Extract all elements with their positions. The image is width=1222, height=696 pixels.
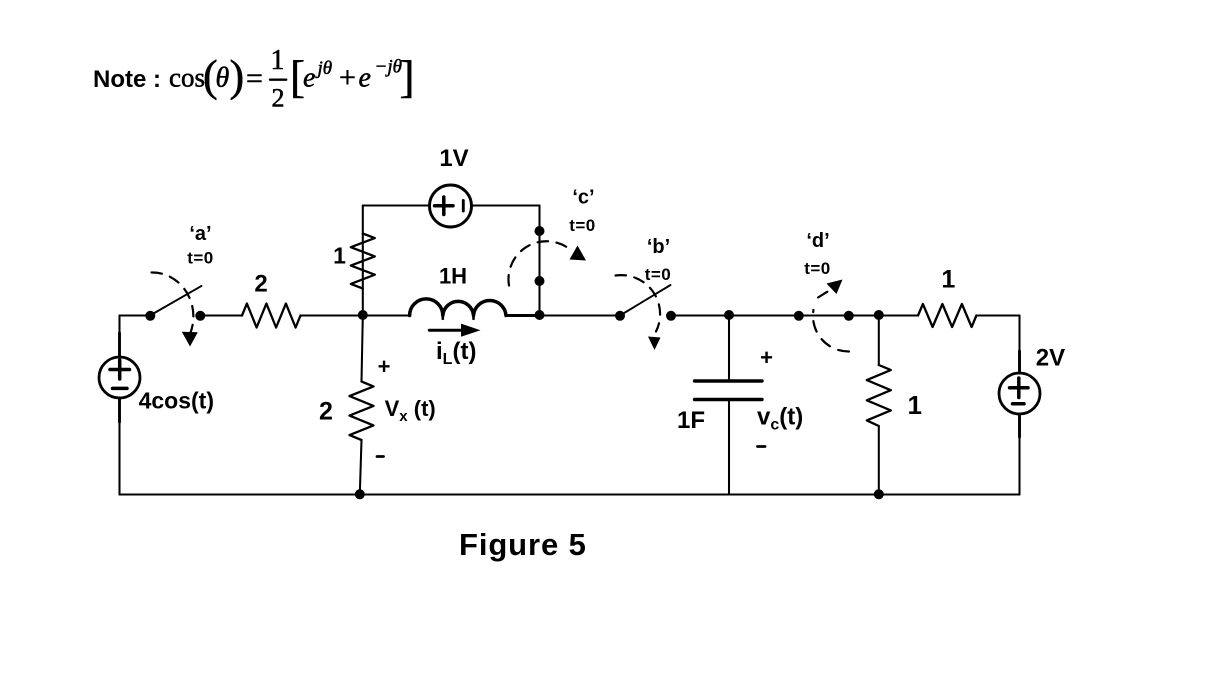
svg-text:t=0: t=0 (645, 265, 672, 284)
svg-text:2: 2 (254, 271, 267, 298)
svg-text:e: e (303, 62, 315, 93)
svg-text:1: 1 (941, 266, 955, 294)
svg-text:1: 1 (333, 243, 346, 269)
svg-text:‘a’: ‘a’ (189, 223, 211, 245)
svg-text:1H: 1H (439, 264, 467, 289)
svg-text:cos: cos (169, 63, 205, 93)
svg-text:1F: 1F (677, 407, 705, 434)
svg-text:1: 1 (907, 390, 921, 420)
svg-text:‘b’: ‘b’ (647, 236, 670, 258)
svg-text:1V: 1V (439, 145, 468, 172)
svg-text:+: + (378, 354, 391, 379)
svg-text:t=0: t=0 (187, 248, 214, 267)
svg-text:e: e (359, 62, 371, 93)
svg-text:t=0: t=0 (569, 216, 596, 235)
svg-text:1: 1 (271, 45, 285, 76)
svg-text:‘d’: ‘d’ (806, 230, 829, 252)
svg-text:iL(t): iL(t) (436, 338, 476, 368)
svg-text:jθ: jθ (315, 58, 333, 79)
svg-text:−jθ: −jθ (375, 57, 402, 78)
svg-text:vc(t): vc(t) (757, 404, 803, 434)
svg-text:4cos(t): 4cos(t) (139, 388, 214, 414)
svg-text:θ: θ (216, 63, 230, 94)
svg-text:+: + (760, 345, 773, 370)
svg-text:2V: 2V (1036, 345, 1065, 372)
svg-text:Note :: Note : (93, 66, 161, 93)
svg-text:t=0: t=0 (804, 259, 831, 278)
svg-text:=: = (246, 62, 263, 95)
svg-text:2: 2 (272, 83, 285, 112)
svg-text:2: 2 (319, 398, 333, 426)
svg-text:‘c’: ‘c’ (572, 187, 594, 209)
svg-text:+: + (339, 61, 356, 94)
svg-text:]: ] (400, 52, 415, 102)
svg-text:): ) (230, 52, 245, 101)
svg-text:Vx (t): Vx (t) (385, 396, 436, 425)
